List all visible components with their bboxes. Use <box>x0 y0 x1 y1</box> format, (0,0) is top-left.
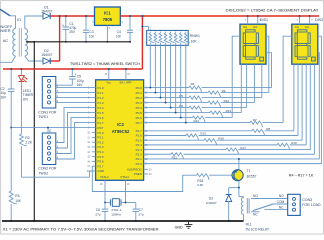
wire D2 cathode up to rectifier node (red) <box>51 16 60 61</box>
svg-text:CA: CA <box>295 25 299 29</box>
svg-text:AT89C52: AT89C52 <box>112 129 130 134</box>
svg-text:P3.3: P3.3 <box>97 145 104 149</box>
wire ground bus <box>2 220 244 222</box>
svg-text:R16: R16 <box>218 136 224 140</box>
svg-text:NO: NO <box>253 194 258 198</box>
connector CON3 FOR LOAD <box>288 194 321 215</box>
wire secondary bottom to D2 <box>25 56 43 61</box>
svg-text:ALE/PROG: ALE/PROG <box>127 167 143 171</box>
svg-text:R4: R4 <box>191 82 195 86</box>
svg-text:10K: 10K <box>15 199 22 203</box>
svg-text:P3.7: P3.7 <box>97 164 104 168</box>
svg-text:PSEN: PSEN <box>134 172 142 176</box>
svg-text:EA / VPP: EA / VPP <box>120 80 132 84</box>
svg-text:16V: 16V <box>77 83 84 87</box>
svg-text:TWS2: TWS2 <box>38 171 48 175</box>
svg-text:P3.0: P3.0 <box>97 131 104 135</box>
ground symbol GND <box>175 221 193 229</box>
svg-text:+: + <box>62 23 64 27</box>
svg-text:P2.1: P2.1 <box>136 157 143 161</box>
wire IC1 ground pin <box>106 25 108 42</box>
svg-text:P2.5: P2.5 <box>136 138 143 142</box>
diode D2 1N4007 <box>41 49 52 64</box>
diode D3 1N4007 <box>206 188 232 222</box>
svg-text:1N4007: 1N4007 <box>206 201 217 205</box>
node RNW1 supply tap <box>141 26 143 28</box>
capacitor C7 27p <box>133 203 144 222</box>
svg-text:D3: D3 <box>209 196 213 200</box>
wire IC2 EA pin 31 to 5V rail <box>125 68 131 80</box>
resistor R3 10K <box>9 128 22 222</box>
wire rectifier output to IC1 input (red) <box>51 15 95 17</box>
svg-text:P0.6: P0.6 <box>136 116 143 120</box>
svg-text:RNW1: RNW1 <box>190 34 200 38</box>
svg-text:CA: CA <box>305 25 309 29</box>
wire XTAL1 pin 19 <box>126 180 131 202</box>
resistor R18 base drive <box>92 166 234 191</box>
svg-text:TIMER: TIMER <box>23 93 34 97</box>
svg-text:10n: 10n <box>89 35 95 39</box>
svg-text:27p: 27p <box>95 212 100 216</box>
svg-text:P3.2: P3.2 <box>97 140 104 144</box>
wires IC2 port0 through resistors R4-R14 to DIS1 <box>144 36 292 127</box>
svg-text:P0.4: P0.4 <box>136 106 143 110</box>
svg-text:1N4007: 1N4007 <box>41 10 52 14</box>
svg-text:P2.3: P2.3 <box>136 148 143 152</box>
svg-text:P1.6: P1.6 <box>97 116 104 120</box>
svg-text:R7: R7 <box>253 118 257 122</box>
svg-text:R2: R2 <box>25 136 29 140</box>
svg-text:R8: R8 <box>266 127 270 131</box>
label AC mains <box>3 38 9 43</box>
capacitor C1 470u 25V <box>62 15 77 43</box>
svg-text:P2.6: P2.6 <box>136 134 143 138</box>
wire secondary top to D1 <box>25 16 43 29</box>
svg-text:XTAL1: XTAL1 <box>120 175 129 179</box>
wire LED chain to IC2 GND pin <box>21 171 95 177</box>
transistor T1 BC557 <box>232 169 257 181</box>
wire T1 collector to relay <box>238 181 240 197</box>
svg-text:1N4007: 1N4007 <box>41 53 52 57</box>
IC1 pin numbers <box>92 21 123 30</box>
svg-text:P3.5: P3.5 <box>97 155 104 159</box>
svg-text:CON3: CON3 <box>302 198 312 202</box>
svg-text:R10: R10 <box>291 141 297 145</box>
crystal XTAL1 12MHz <box>104 199 136 217</box>
svg-text:16V: 16V <box>0 96 7 100</box>
svg-text:R12: R12 <box>224 99 230 103</box>
wires CON1 to IC2 P1.0-P1.3 <box>56 85 96 103</box>
IC2 pin stubs and numbers <box>87 88 152 176</box>
svg-text:P0.3: P0.3 <box>136 101 143 105</box>
svg-text:LED1: LED1 <box>23 89 31 93</box>
display DIS2 LTS542 <box>292 15 323 64</box>
svg-text:DIS2: DIS2 <box>315 18 323 22</box>
svg-text:P2.7: P2.7 <box>136 129 143 133</box>
wire T1 emitter <box>238 158 240 169</box>
diode D1 1N4007 <box>41 6 52 20</box>
svg-text:ON: ON <box>23 98 29 102</box>
wire ground vertical <box>33 42 35 221</box>
wire ground line under IC1 <box>26 41 131 43</box>
transformer X1 label <box>17 18 21 22</box>
svg-text:7805: 7805 <box>103 17 113 22</box>
svg-text:NO: NO <box>279 194 284 198</box>
svg-text:CA: CA <box>253 25 257 29</box>
wire 5V to LED1 <box>20 68 22 75</box>
svg-text:R13: R13 <box>226 109 232 113</box>
resistor network RNW1 10K <box>142 27 200 50</box>
svg-text:DIS1: DIS1 <box>260 18 268 22</box>
svg-text:9V,1CO RELAY: 9V,1CO RELAY <box>246 228 270 232</box>
capacitor C3 10n <box>83 15 94 43</box>
svg-text:BC557: BC557 <box>247 175 257 179</box>
display DIS1 LTS542 <box>240 15 268 64</box>
wire centre tap to ground rail <box>26 41 34 43</box>
svg-text:POWER: POWER <box>0 28 11 33</box>
svg-text:RL1: RL1 <box>246 223 252 227</box>
svg-text:X1 = 230V AC PRIMARY TO 7.5V–0: X1 = 230V AC PRIMARY TO 7.5V–0–7.5V, 300… <box>3 227 159 232</box>
svg-text:COM: COM <box>277 200 285 204</box>
svg-text:FOR LOAD: FOR LOAD <box>302 203 321 207</box>
svg-text:P1.0: P1.0 <box>97 86 104 90</box>
svg-text:P2.2: P2.2 <box>136 152 143 156</box>
svg-text:P3.1: P3.1 <box>97 136 104 140</box>
svg-text:P1.2: P1.2 <box>97 96 104 100</box>
svg-text:10µ: 10µ <box>0 91 6 95</box>
svg-text:P0.1: P0.1 <box>136 91 143 95</box>
svg-text:C7: C7 <box>139 208 143 212</box>
svg-text:P2.4: P2.4 <box>136 143 143 147</box>
svg-text:T1: T1 <box>247 169 251 173</box>
svg-text:P1.3: P1.3 <box>97 101 104 105</box>
svg-text:P1.5: P1.5 <box>97 111 104 115</box>
svg-text:IC2: IC2 <box>117 122 124 127</box>
svg-text:P2.0: P2.0 <box>136 162 143 166</box>
svg-text:GND: GND <box>175 225 183 229</box>
svg-text:XTAL-1: XTAL-1 <box>111 208 122 212</box>
svg-text:P0.0: P0.0 <box>136 86 143 90</box>
wire reset line to IC2 pin 9 <box>10 127 95 129</box>
svg-text:DIS1,DIS2 = LTS542 CA 7–SEGMEN: DIS1,DIS2 = LTS542 CA 7–SEGMENT DISPLAY <box>226 8 319 13</box>
svg-text:TWS1,TWS2 = THUMB WHEEL SWITCH: TWS1,TWS2 = THUMB WHEEL SWITCH <box>70 61 140 66</box>
wires and nodes RNW1 pullups on port0 lines <box>149 45 186 123</box>
svg-text:NC: NC <box>253 213 258 217</box>
svg-text:CA: CA <box>243 25 247 29</box>
LED1 TIMER ON <box>19 76 34 102</box>
microcontroller IC2 AT89C52 <box>96 80 144 181</box>
svg-text:TWS1: TWS1 <box>38 115 48 119</box>
svg-text:C2: C2 <box>0 87 4 91</box>
connector CON1 FOR TWS1 <box>38 77 57 120</box>
svg-text:X1: X1 <box>17 18 21 22</box>
wire switch to transformer primary <box>10 16 16 29</box>
wire D3 tap <box>229 187 240 189</box>
switch S1 ON/OFF POWER <box>0 9 13 33</box>
svg-text:RST: RST <box>97 126 103 130</box>
note 7-segment display <box>226 8 319 13</box>
wire 5V rail drop (red) <box>141 15 143 69</box>
svg-text:P0.5: P0.5 <box>136 111 143 115</box>
svg-text:CON2 FOR: CON2 FOR <box>38 167 57 171</box>
svg-text:XTAL2: XTAL2 <box>100 175 109 179</box>
svg-text:27p: 27p <box>138 212 143 216</box>
svg-text:C5: C5 <box>77 74 81 78</box>
note transformer spec <box>3 227 159 232</box>
svg-text:25V: 25V <box>69 30 76 34</box>
wire 5V rail mid (red) <box>3 68 142 70</box>
wire 5V rail top (red) <box>120 15 319 17</box>
capacitor C6 27p <box>95 203 108 222</box>
wire CON1 common <box>54 81 72 85</box>
svg-text:R5: R5 <box>179 94 183 98</box>
svg-text:P1.1: P1.1 <box>97 91 104 95</box>
svg-text:IC1: IC1 <box>104 10 111 15</box>
node rectifier junction <box>59 15 61 17</box>
svg-text:P3.6: P3.6 <box>97 160 104 164</box>
svg-text:R17: R17 <box>240 146 246 150</box>
svg-text:10n: 10n <box>116 35 122 39</box>
capacitor C4 10n <box>116 15 133 43</box>
wire IC2 Vcc pin 40 to 5V rail <box>105 68 110 80</box>
capacitor C2 10u 16V <box>0 68 14 128</box>
resistor R2 2.2K <box>20 82 33 178</box>
svg-text:R6: R6 <box>179 104 183 108</box>
wire XTAL2 pin 18 <box>100 180 105 202</box>
svg-text:C6: C6 <box>96 208 100 212</box>
regulator IC1 7805 <box>95 7 121 25</box>
svg-text:3.3K: 3.3K <box>197 183 204 187</box>
svg-text:P1.4: P1.4 <box>97 106 104 110</box>
svg-text:GND: GND <box>97 169 105 173</box>
svg-text:CON1 FOR: CON1 FOR <box>38 111 57 115</box>
relay RL1 9V 1CO <box>239 197 270 232</box>
svg-text:10K: 10K <box>191 40 198 44</box>
relay contacts NO COM NC <box>251 194 288 216</box>
svg-text:R3: R3 <box>15 194 19 198</box>
svg-text:P0.2: P0.2 <box>136 96 143 100</box>
svg-text:12MHz: 12MHz <box>111 212 121 216</box>
connector CON2 FOR TWS2 <box>38 133 57 175</box>
svg-text:R4 – R17 = 1K: R4 – R17 = 1K <box>289 174 314 178</box>
svg-text:R15: R15 <box>200 132 206 136</box>
svg-text:AC: AC <box>3 38 9 43</box>
svg-text:R9: R9 <box>222 89 226 93</box>
wires CON2 to IC2 P1.4-P1.7 <box>56 108 96 160</box>
svg-text:P1.7: P1.7 <box>97 121 104 125</box>
wire primary return to AC <box>0 56 16 62</box>
svg-text:100µ: 100µ <box>77 79 84 83</box>
note resistor values <box>289 174 314 178</box>
svg-text:Vcc: Vcc <box>106 80 111 84</box>
transformer X1 <box>13 28 28 57</box>
svg-text:2.2K: 2.2K <box>25 140 32 144</box>
wires IC2 port2 through resistors R8-R17 to DIS2 <box>144 36 322 163</box>
svg-text:NC: NC <box>279 206 284 210</box>
svg-text:P0.7: P0.7 <box>136 121 143 125</box>
note thumb wheel switch <box>70 61 140 66</box>
svg-text:P3.4: P3.4 <box>97 150 104 154</box>
capacitor C5 100u 16V <box>69 68 84 87</box>
wire CON2 common to reset line <box>47 127 52 133</box>
